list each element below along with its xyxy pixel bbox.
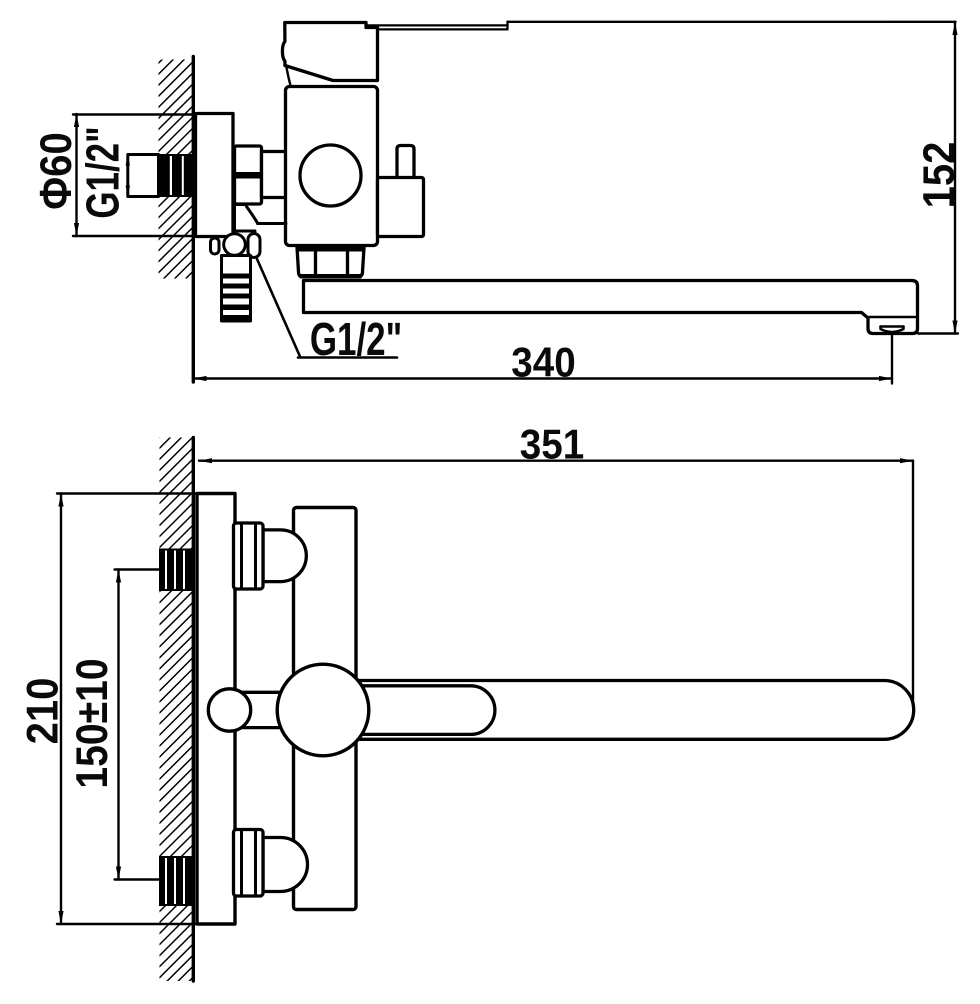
svg-text:351: 351 <box>520 420 584 468</box>
svg-text:340: 340 <box>511 338 575 386</box>
svg-text:150±10: 150±10 <box>67 658 117 788</box>
svg-text:G1/2": G1/2" <box>77 126 129 218</box>
svg-text:210: 210 <box>18 678 67 745</box>
svg-text:152: 152 <box>914 142 963 209</box>
svg-text:Φ60: Φ60 <box>31 132 80 209</box>
svg-text:G1/2": G1/2" <box>310 313 402 365</box>
